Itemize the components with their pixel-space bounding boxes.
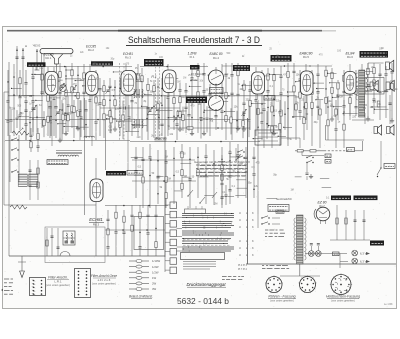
ground lead arrow: [18, 256, 26, 278]
svg-text:5632 - 0144 b: 5632 - 0144 b: [177, 296, 229, 306]
label box Umschalt: [47, 160, 68, 165]
mains switch: [258, 214, 280, 228]
svg-text:2M: 2M: [165, 156, 168, 158]
if diode can D2: [209, 96, 224, 111]
ferrite antenna rod: [56, 151, 82, 157]
svg-text:Rö.2: Rö.2: [88, 48, 94, 52]
label box ratio detector: [210, 88, 224, 94]
svg-text:Rö.7: Rö.7: [319, 204, 325, 208]
svg-text:U: U: [239, 225, 241, 229]
label box HF3202 small: [190, 65, 200, 70]
transformer mains label: [265, 197, 288, 236]
svg-text:(von unten gesehen): (von unten gesehen): [270, 299, 294, 303]
svg-text:6,3 V: 6,3 V: [360, 260, 367, 264]
svg-text:30p: 30p: [314, 121, 319, 124]
svg-text:Fl.1: Fl.1: [151, 75, 157, 79]
svg-text:453 E: 453 E: [33, 44, 40, 48]
svg-text:Heißbuchsen-Fassung: Heißbuchsen-Fassung: [326, 295, 360, 299]
svg-text:Rö.1: Rö.1: [46, 56, 52, 60]
speaker LS2: [370, 80, 378, 91]
switch diagonals near grid: [187, 154, 241, 204]
wire far-left rail: [4, 62, 9, 256]
label ECC85 b: [86, 45, 96, 53]
svg-text:1M: 1M: [340, 96, 343, 99]
svg-text:Rö.5: Rö.5: [303, 55, 309, 59]
FM subchassis box: [45, 227, 105, 263]
title Schaltschema Freudenstadt 7 - 3 D: [128, 35, 260, 45]
label ECC85 Ro.2: [123, 52, 133, 60]
doc number 5632 - 0144 b: [177, 296, 229, 306]
svg-text:220: 220: [240, 88, 245, 91]
label Fl.3: [191, 73, 197, 77]
connector block St1: [30, 278, 46, 296]
svg-text:30p: 30p: [248, 181, 253, 184]
label box right top 2: [354, 196, 378, 201]
power transformer core: [297, 215, 304, 264]
svg-text:L.FI.1: L.FI.1: [54, 280, 62, 284]
svg-text:1M: 1M: [29, 96, 32, 98]
svg-text:500: 500: [182, 96, 187, 99]
svg-text:2M: 2M: [12, 108, 15, 110]
tube Ro3 ECH81 top: [163, 70, 177, 93]
coil mid-low: [84, 136, 94, 137]
tube Ro7 EZ80 circle: [314, 207, 330, 224]
speaker LS3: [386, 80, 394, 91]
lamp wires: [305, 252, 370, 268]
mains fuse Si: [276, 210, 284, 213]
svg-text:(von unten gesehen): (von unten gesehen): [331, 299, 355, 303]
svg-text:U: U: [239, 218, 241, 222]
svg-text:K: K: [252, 218, 254, 222]
label box NF right of EF89: [264, 96, 275, 101]
svg-text:Le 1 RK: Le 1 RK: [384, 303, 393, 306]
coil can left: [63, 231, 75, 245]
svg-text:2W: 2W: [152, 282, 157, 286]
long vertical pair mid-left: [85, 98, 106, 215]
pushbutton matrix: [177, 213, 235, 252]
trim caps left: [29, 160, 40, 200]
rectifier + caps right: [330, 205, 370, 240]
label box HF3172: [144, 59, 164, 66]
antenna A: [40, 49, 73, 96]
trimmer capacitors: [31, 83, 246, 122]
scattered labels: [39, 48, 394, 91]
svg-text:1M: 1M: [379, 48, 382, 50]
label ECH81 Ro.3: [89, 217, 104, 227]
label Fl.1: [151, 75, 157, 79]
socket diagram 3: [330, 273, 352, 295]
svg-text:470: 470: [80, 79, 85, 82]
svg-text:Rö.4: Rö.4: [213, 56, 219, 60]
svg-text:6,3 V: 6,3 V: [360, 252, 367, 256]
label box right top 1: [331, 196, 351, 201]
svg-text:2M: 2M: [240, 162, 243, 165]
component value labels: [62, 73, 399, 189]
label Drucktastenaggregat: [187, 282, 227, 287]
legend caption Belast.d.Widerst: [129, 295, 153, 299]
svg-text:220: 220: [246, 98, 251, 101]
label box Oesch: [384, 164, 395, 169]
svg-text:FI.1: FI.1: [190, 55, 195, 59]
output transformer core: [359, 70, 365, 117]
IF coil pair Fl.2 upper: [134, 89, 144, 98]
band switch dashed links: [120, 63, 160, 140]
wire mid-left bus: [4, 92, 96, 256]
bottom left plug labels: [1, 279, 13, 294]
svg-text:Drucktastenaggregat: Drucktastenaggregat: [187, 282, 227, 287]
svg-text:EABC 80: EABC 80: [155, 137, 167, 141]
svg-text:Schaltschema Freudenstadt 7 -: Schaltschema Freudenstadt 7 - 3 D: [128, 35, 260, 45]
svg-text:U: U: [239, 246, 241, 250]
svg-text:1M: 1M: [370, 106, 373, 109]
pushbutton footnote: [222, 277, 244, 280]
wiring network: [5, 63, 394, 276]
note text block2: [200, 166, 246, 177]
left RC pair: [29, 128, 40, 152]
label box St right: [370, 241, 384, 246]
tube Ro2 ECC85: [121, 71, 136, 96]
top heavy rule: [7, 30, 336, 32]
label EABC80 lower: [155, 137, 167, 141]
tuning pot circle: [60, 85, 67, 92]
tube Ro3 ECH81: [90, 179, 103, 202]
svg-text:30p: 30p: [150, 90, 155, 93]
switch bank left: [10, 135, 19, 182]
interconnect links: [11, 69, 389, 198]
tube Ro1 ECC85 (a): [45, 72, 58, 96]
svg-text:1/2W: 1/2W: [152, 270, 159, 274]
chains right of notes: [224, 142, 232, 205]
svg-text:ECH81: ECH81: [89, 217, 103, 222]
svg-text:K: K: [252, 211, 254, 215]
antenna lead-in arrow: [35, 49, 40, 70]
scattered labels 2: [9, 96, 381, 205]
svg-text:Rö.6: Rö.6: [347, 55, 353, 59]
label box right of AM osc: [127, 170, 143, 175]
label Filter-Anschl 1: [46, 276, 70, 288]
band labels UKW LM KM: [239, 211, 254, 257]
svg-text:Pl.7 Pl.2: Pl.7 Pl.2: [238, 268, 248, 271]
potentiometer zigzag 2: [10, 205, 27, 209]
label box S302: [333, 252, 340, 256]
svg-text:(von unten gesehen): (von unten gesehen): [92, 282, 116, 286]
svg-text:Rö.3: Rö.3: [93, 223, 100, 227]
svg-text:Pl.2 Pl.1: Pl.2 Pl.1: [238, 264, 248, 267]
output transformer windings: [356, 73, 367, 100]
svg-text:2M: 2M: [168, 178, 171, 181]
svg-text:Röhren - Fassung: Röhren - Fassung: [268, 295, 295, 299]
label EABC80: [210, 52, 223, 60]
top link wire: [36, 63, 332, 70]
label EM80 Ro.7: [318, 201, 327, 208]
svg-text:U: U: [239, 211, 241, 215]
tube Ro1 ECC85 (b): [86, 72, 99, 96]
wire speaker feeds: [352, 63, 390, 124]
pushbutton ladder: [165, 198, 177, 274]
corner mark: [384, 303, 393, 306]
svg-text:Fl.3: Fl.3: [191, 73, 197, 77]
label EABC80 Ro5: [300, 52, 313, 60]
speaker LS1: [386, 60, 394, 71]
dial lamps: [352, 250, 367, 264]
svg-text:1/2W: 1/2W: [152, 265, 159, 269]
svg-text:2M: 2M: [309, 72, 312, 74]
svg-text:1/10W: 1/10W: [152, 259, 160, 263]
tube Ro4 EF89: [252, 72, 265, 94]
label ECC85 Ro.1: [44, 53, 54, 61]
label Filter-Anschl 2: [91, 274, 117, 286]
svg-text:K: K: [252, 225, 254, 229]
svg-text:470: 470: [256, 162, 261, 165]
speaker LS5: [387, 125, 395, 135]
svg-text:A: A: [25, 44, 27, 48]
potentiometer zigzag left: [12, 128, 29, 135]
wiring network 2: [6, 64, 382, 214]
svg-text:U: U: [239, 253, 241, 257]
AM IF transformer striped 2: [29, 174, 38, 186]
resistor speaker R: [377, 101, 380, 107]
antenna label A 453 E: [25, 44, 40, 49]
svg-text:K: K: [252, 253, 254, 257]
legend resistor wattage: [129, 259, 160, 291]
connector block St2: [75, 269, 91, 298]
power transformer windings: [294, 218, 306, 260]
label Fl.2: [135, 73, 141, 77]
tube Ro5 EABC80: [301, 71, 314, 95]
title underline: [126, 45, 262, 47]
speaker LS2 box: [365, 78, 384, 95]
switch far right: [377, 167, 382, 177]
label Heissbuchsen-Fassung: [326, 295, 360, 303]
svg-text:2M: 2M: [184, 175, 187, 178]
svg-text:Belast.d.Widerst.: Belast.d.Widerst.: [129, 295, 153, 299]
label box mains voltage: [268, 205, 289, 212]
svg-text:2M: 2M: [214, 203, 217, 205]
svg-text:3W: 3W: [152, 287, 157, 291]
note text block: [196, 165, 248, 176]
label box AM Oszillator: [106, 171, 126, 176]
speaker LS4: [374, 125, 382, 135]
label Roehren-Fassung: [268, 295, 296, 303]
svg-text:U: U: [239, 239, 241, 243]
svg-text:2M: 2M: [260, 112, 263, 115]
IF coil pair Fl.2 lower: [134, 119, 144, 128]
cap cluster left-mid: [46, 228, 60, 256]
svg-text:1M: 1M: [183, 77, 186, 79]
label box HF3202: [271, 55, 292, 62]
svg-text:(von unten gesehen): (von unten gesehen): [46, 283, 70, 287]
scale lamps: [309, 244, 322, 257]
label box NF3052: [233, 65, 250, 71]
note text underline: [194, 160, 250, 164]
svg-text:1M: 1M: [291, 190, 294, 192]
bottom bus right: [9, 256, 396, 264]
plug tiny labels: [238, 264, 289, 271]
svg-text:Fl.2: Fl.2: [135, 73, 141, 77]
svg-text:Rö.3: Rö.3: [125, 56, 131, 60]
label box UKW 352: [27, 62, 46, 67]
label 1.ZFB: [188, 52, 198, 60]
svg-text:Netztrafo: Netztrafo: [276, 197, 289, 201]
center tall wire: [247, 118, 249, 264]
if diode can D1: [209, 70, 224, 85]
socket diagram 1: [265, 275, 283, 293]
label EL84 Ro.6: [346, 52, 355, 60]
svg-text:L.FI. 2 u.6: L.FI. 2 u.6: [98, 278, 111, 282]
svg-text:1W: 1W: [152, 276, 157, 280]
cap speaker C: [389, 103, 392, 104]
wire left antenna pair: [16, 46, 25, 95]
tube Ro6 EL84: [344, 72, 356, 95]
svg-text:K: K: [252, 246, 254, 250]
pushbutton bottom box: [181, 253, 225, 270]
label box ZF boxes mid: [186, 97, 207, 104]
socket diagram 2: [299, 275, 317, 293]
pushbutton top box: [185, 206, 206, 214]
label box NF right top: [360, 51, 389, 58]
AM IF transformer striped 1: [18, 174, 27, 186]
label box Oszillator: [91, 61, 113, 65]
svg-text:K: K: [252, 239, 254, 243]
